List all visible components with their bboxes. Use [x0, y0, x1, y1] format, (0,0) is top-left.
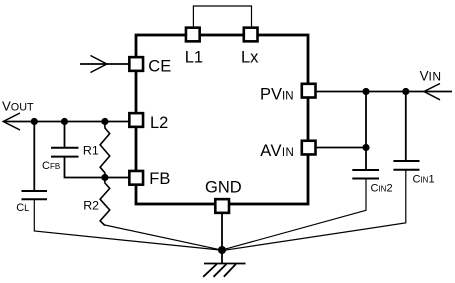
node VOUT label — [2, 98, 34, 113]
wire CL bottom to ground — [34, 199, 220, 250]
svg-text:GND: GND — [205, 179, 242, 197]
svg-text:R2: R2 — [83, 199, 99, 213]
capacitor CIN1 label — [413, 174, 435, 186]
capacitor CFB — [51, 148, 79, 157]
node VIN label — [420, 69, 442, 84]
pin L2 — [129, 113, 168, 132]
svg-text:Lx: Lx — [241, 49, 259, 67]
pin GND — [205, 179, 242, 213]
svg-text:CE: CE — [148, 58, 171, 76]
resistor R1 label — [83, 143, 99, 157]
capacitor CIN2 label — [371, 183, 393, 195]
wire CIN1 top branch — [405, 92, 407, 162]
wire CFB bottom to FB pin — [65, 157, 131, 178]
svg-text:VOUT: VOUT — [2, 98, 34, 113]
svg-text:CFB: CFB — [42, 160, 60, 172]
resistor R2 label — [83, 199, 99, 213]
pin PVIN — [260, 84, 316, 104]
IC body U1 — [136, 35, 308, 204]
wire CIN2 top branch — [365, 92, 367, 171]
svg-text:L2: L2 — [150, 114, 168, 132]
wire CFB branch from VOUT rail — [64, 122, 66, 148]
junction dot VOUT-CFB — [61, 118, 68, 125]
wire AVIN stub to CIN2 node — [315, 147, 366, 149]
wire R2 bottom to ground — [105, 225, 220, 250]
node VIN arrow — [424, 84, 440, 100]
junction dot AVIN-CIN2 — [362, 144, 369, 151]
pin FB — [129, 170, 170, 188]
junction dot VIN-CIN2 — [362, 88, 369, 95]
wire CL branch from VOUT rail — [33, 122, 35, 192]
junction dot VIN-CIN1 — [402, 88, 409, 95]
ground symbol — [203, 264, 245, 277]
junction dot FB node — [101, 174, 108, 181]
junction dot VOUT-CL — [31, 118, 38, 125]
capacitor CFB label — [42, 160, 60, 172]
wire GND pin to ground — [221, 212, 223, 264]
svg-text:CIN2: CIN2 — [371, 183, 393, 195]
svg-text:FB: FB — [149, 170, 170, 188]
junction dot VOUT-R1 — [101, 118, 108, 125]
capacitor CL — [22, 191, 48, 199]
wire CIN2 bottom to ground — [224, 179, 367, 250]
capacitor CL label — [16, 202, 29, 214]
svg-text:R1: R1 — [83, 143, 99, 157]
pin L1 — [185, 28, 203, 67]
resistor R1 — [100, 122, 110, 178]
capacitor CIN1 — [393, 161, 419, 170]
wire CE input with arrow — [80, 56, 130, 73]
svg-text:L1: L1 — [185, 49, 203, 67]
svg-text:CIN1: CIN1 — [413, 174, 435, 186]
node VOUT arrow — [3, 113, 20, 130]
junction dot ground node — [218, 246, 226, 254]
wire VIN rail — [315, 91, 452, 93]
resistor R2 — [100, 178, 110, 226]
pin AVIN — [260, 141, 315, 160]
pin CE — [129, 57, 171, 76]
svg-text:CL: CL — [16, 202, 29, 214]
wire VOUT rail — [4, 121, 131, 123]
svg-text:VIN: VIN — [420, 69, 442, 84]
pin Lx — [241, 28, 259, 67]
wire L1-Lx external jumper — [193, 6, 251, 27]
capacitor CIN2 — [352, 170, 379, 179]
wire CIN1 bottom to ground — [224, 170, 406, 251]
